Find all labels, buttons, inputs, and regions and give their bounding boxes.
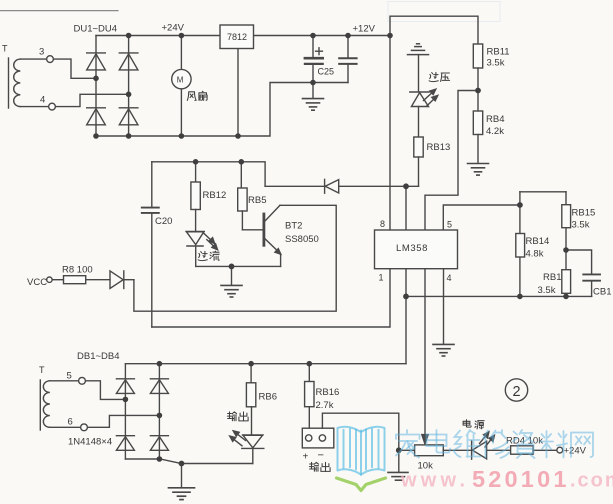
capacitor C20 xyxy=(142,162,159,327)
svg-text:RB1: RB1 xyxy=(543,272,561,283)
svg-text:520101: 520101 xyxy=(472,466,570,492)
terminal 4 circle xyxy=(49,103,56,110)
LM358 pin2 bottom wire to output rail xyxy=(405,269,407,364)
LM358 pin4 ground wire xyxy=(433,269,454,356)
wire bridge2 bottom rail xyxy=(125,459,252,464)
wire LED1 to RB13 xyxy=(418,107,420,138)
wire RB4 to ground xyxy=(477,135,479,163)
wire pot to LED4 xyxy=(443,449,471,451)
label fan (feng shan) xyxy=(187,92,196,101)
svg-text:+: + xyxy=(303,452,309,463)
diode DU lower-left xyxy=(87,108,106,125)
wm book icon xyxy=(337,427,386,491)
svg-text:3.5k: 3.5k xyxy=(572,219,590,230)
svg-text:R8 100: R8 100 xyxy=(62,264,93,275)
svg-text:8: 8 xyxy=(380,219,385,229)
wire riser to top link xyxy=(390,16,478,44)
wire collector to VCC diode xyxy=(134,205,336,311)
svg-text:RB15: RB15 xyxy=(572,207,596,218)
terminal 3 circle xyxy=(47,56,54,63)
svg-text:1N4148×4: 1N4148×4 xyxy=(68,436,112,447)
svg-text:T: T xyxy=(2,44,8,54)
svg-text:+24V: +24V xyxy=(564,446,587,457)
svg-text:3.5k: 3.5k xyxy=(487,57,505,68)
LED4 power xyxy=(472,432,495,459)
svg-text:RB14: RB14 xyxy=(526,236,550,247)
wire LED3 down xyxy=(252,448,254,463)
svg-text:5: 5 xyxy=(67,370,72,381)
transformer T (bottom) winding xyxy=(43,381,49,428)
output terminal block xyxy=(302,428,334,448)
feedback network frame xyxy=(520,191,566,193)
label overvoltage (guo ya) xyxy=(429,72,438,81)
diode DU upper-right xyxy=(119,53,138,70)
ground below emitter rail xyxy=(221,266,242,297)
svg-text:+12V: +12V xyxy=(353,24,376,35)
wire bridge2 left column xyxy=(124,364,126,459)
svg-text:BT2: BT2 xyxy=(285,221,302,232)
svg-text:6: 6 xyxy=(68,416,73,427)
op-amp LM358 pin5 wire xyxy=(443,205,520,230)
wire D2 to corner xyxy=(124,279,134,281)
wire bridge left column xyxy=(95,36,97,137)
terminal 6 circle xyxy=(81,424,88,431)
svg-text:CB1: CB1 xyxy=(593,286,611,297)
svg-text:C20: C20 xyxy=(155,216,172,227)
wire RB5 to base xyxy=(242,229,262,231)
circled 2 xyxy=(505,379,527,401)
svg-text:DB1~DB4: DB1~DB4 xyxy=(77,351,120,362)
svg-text:RB12: RB12 xyxy=(203,190,227,201)
LED1 overvoltage xyxy=(410,89,438,106)
resistor RB14 xyxy=(516,234,525,258)
wire RD4 to +24V terminal xyxy=(533,449,557,451)
diode DB upper-left xyxy=(116,379,134,394)
wire cap2 bottom link xyxy=(313,82,348,84)
transformer T (bottom) core xyxy=(39,380,41,430)
resistor RB6 xyxy=(246,364,255,435)
diode D3 xyxy=(325,179,339,193)
diode DB lower-right xyxy=(150,436,168,451)
wire bridge2 right column xyxy=(158,364,160,459)
potentiometer 10k xyxy=(415,445,444,456)
wire R8 to D2 xyxy=(86,279,110,281)
ground under C25 xyxy=(303,83,324,111)
op-amp LM358 xyxy=(375,230,458,269)
capacitor C25 xyxy=(305,36,323,83)
LED3 output xyxy=(230,431,264,449)
svg-text:www.: www. xyxy=(400,470,469,492)
resistor RD4 xyxy=(511,446,533,454)
wire RB11/RB4 junction to pin3 riser xyxy=(425,91,478,231)
LED2 overcurrent xyxy=(186,231,218,249)
svg-text:DU1~DU4: DU1~DU4 xyxy=(74,24,118,35)
svg-text:RB4: RB4 xyxy=(486,114,504,125)
svg-text:RB5: RB5 xyxy=(248,195,266,206)
capacitor CB1 xyxy=(566,250,600,296)
wire junction to LM358 pin xyxy=(405,186,407,230)
svg-text:RB11: RB11 xyxy=(487,46,510,57)
resistor RB1 xyxy=(562,270,571,294)
svg-text:C25: C25 xyxy=(318,67,335,77)
svg-text:1: 1 xyxy=(379,273,384,283)
LM358 wiper wire xyxy=(422,269,428,444)
wire C20 to LM358 pin1 xyxy=(152,269,390,327)
wire LED4 to RD4 xyxy=(487,449,511,451)
svg-text:−: − xyxy=(318,450,324,462)
ground under block riser xyxy=(388,450,408,480)
svg-text:3: 3 xyxy=(39,47,44,58)
fan motor M xyxy=(172,69,191,88)
resistor RB13 xyxy=(414,137,423,157)
diode DU upper-left xyxy=(87,53,106,70)
svg-text:T: T xyxy=(39,365,45,375)
svg-text:RB6: RB6 xyxy=(259,391,277,402)
diode DB lower-left xyxy=(116,436,134,451)
wm text jiadian weixiu ziliao wang xyxy=(396,430,420,458)
wire comparator input net xyxy=(265,185,324,187)
label output LED (shu chu) xyxy=(227,412,236,421)
op-amp LM358 pin8 wire xyxy=(389,36,391,231)
resistor RB5 xyxy=(238,162,247,230)
svg-text:3.5k: 3.5k xyxy=(538,285,556,296)
svg-text:2.7k: 2.7k xyxy=(316,400,334,411)
wire output top rail xyxy=(125,363,406,365)
resistor R8 xyxy=(64,276,86,284)
scan edge line top-left xyxy=(0,10,118,12)
wire riser to pot xyxy=(399,449,415,451)
fan M wires xyxy=(180,36,182,70)
label output block (shu chu) xyxy=(309,462,318,471)
wire bridge right column xyxy=(128,36,130,137)
svg-text:7812: 7812 xyxy=(227,32,247,42)
svg-text:M: M xyxy=(177,75,184,84)
wire RB11 to RB4 xyxy=(477,68,479,111)
wire emitter rail xyxy=(196,265,281,267)
svg-text:4: 4 xyxy=(40,95,45,106)
svg-text:+24V: +24V xyxy=(162,23,185,34)
ground under RB4 xyxy=(468,164,489,176)
resistor RB16 xyxy=(305,364,314,429)
wire block minus riser xyxy=(322,413,398,450)
regulator 7812 gnd pin xyxy=(237,49,239,137)
faint watermark box top xyxy=(388,2,500,22)
regulator 7812 xyxy=(220,25,254,49)
inverted ground above LED1 xyxy=(408,44,429,55)
svg-text:VCC: VCC xyxy=(27,277,47,288)
transistor BT2 xyxy=(264,205,281,266)
ground under output rail xyxy=(169,464,195,500)
wire +24V top rail xyxy=(96,35,390,37)
wire terminal 3 to bridge xyxy=(20,58,46,60)
svg-text:4.2k: 4.2k xyxy=(486,126,504,137)
svg-text:.com: .com xyxy=(570,470,613,492)
svg-text:RB16: RB16 xyxy=(316,387,340,398)
wire terminal 6 xyxy=(50,426,81,428)
svg-text:LM358: LM358 xyxy=(396,243,428,254)
label power (dian yuan) xyxy=(463,420,471,427)
resistor RB11 xyxy=(473,44,482,68)
resistor RB15 xyxy=(562,205,571,228)
diode DU lower-right xyxy=(119,108,138,125)
transformer T (top) winding xyxy=(14,59,21,107)
resistor RB12 xyxy=(191,162,200,231)
wire ground to LED1 xyxy=(418,55,420,92)
wire VCC to R8 xyxy=(52,279,63,281)
wire bias rail (overcurrent section) xyxy=(152,162,265,187)
wm url www.520101.com xyxy=(400,466,613,492)
terminal 5 circle xyxy=(79,377,86,384)
diode DB upper-right xyxy=(150,379,168,394)
diode D2 xyxy=(110,271,124,289)
svg-text:2: 2 xyxy=(512,384,520,400)
transformer T (top) core xyxy=(8,58,10,108)
wire terminal 4 to bridge xyxy=(20,106,48,108)
+24V terminal circle xyxy=(557,447,563,453)
resistor RB4 xyxy=(473,111,482,135)
wire RB13 down xyxy=(418,157,420,186)
label overcurrent (guo liu) xyxy=(198,251,207,260)
svg-text:SS8050: SS8050 xyxy=(285,234,319,245)
VCC terminal xyxy=(47,277,52,282)
wire LED2 to emitter rail xyxy=(195,246,197,266)
svg-text:RB13: RB13 xyxy=(427,142,451,153)
wire 0V bottom rail xyxy=(96,83,313,137)
svg-text:4: 4 xyxy=(447,273,452,283)
wire terminal 5 xyxy=(50,380,79,382)
wire feedback bottom xyxy=(406,295,520,297)
svg-text:5: 5 xyxy=(447,220,452,230)
capacitor C25b xyxy=(339,36,356,83)
svg-text:4.8k: 4.8k xyxy=(526,249,544,260)
